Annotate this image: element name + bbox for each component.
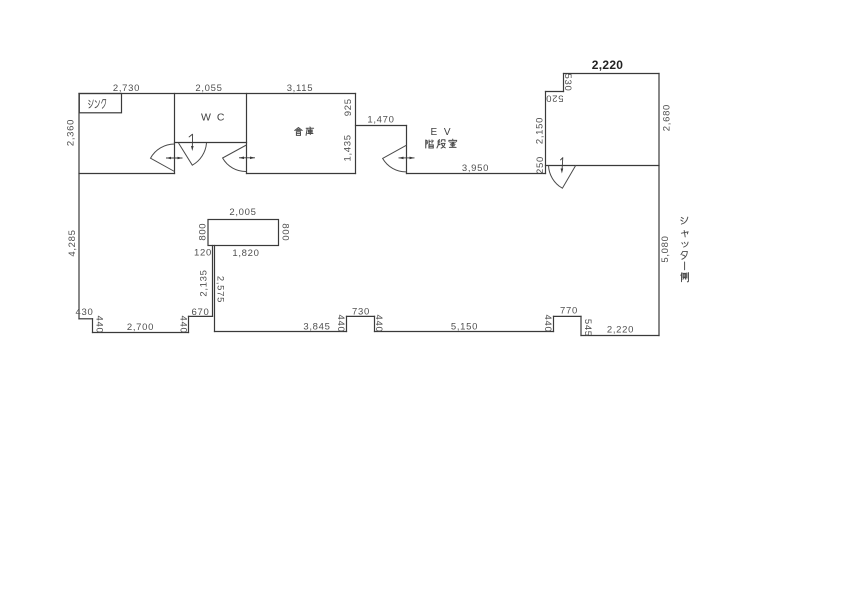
wall right-room west	[545, 92, 547, 174]
arrow D3	[239, 157, 255, 160]
svg-text:120: 120	[194, 248, 212, 259]
wall EV west	[406, 126, 408, 174]
door D5 right room (arc+leaf)	[549, 165, 576, 188]
wall pillar770 west	[553, 316, 555, 331]
svg-text:545: 545	[582, 319, 593, 337]
svg-text:800: 800	[280, 223, 291, 241]
door D2 WC (arc+leaf)	[179, 143, 207, 165]
wall bottom 3845	[215, 331, 347, 333]
svg-text:2,135: 2,135	[199, 269, 210, 296]
wall partition 120 east line	[214, 246, 216, 332]
label シャッター側 (hand-drawn, vertical)	[681, 217, 689, 282]
label 倉庫 (hand-drawn)	[295, 127, 314, 135]
svg-text:430: 430	[76, 307, 94, 318]
svg-text:1,435: 1,435	[342, 134, 353, 161]
wall pillar730 east	[374, 316, 376, 331]
wall partition 120 west line	[212, 246, 214, 317]
wall EV south 3950	[407, 173, 546, 175]
label シンク (hand-drawn)	[89, 100, 106, 109]
svg-text:250: 250	[535, 156, 546, 174]
wall right-room north	[564, 73, 660, 75]
wall room1 south	[79, 173, 175, 175]
wall step430 top	[79, 318, 93, 320]
wall ledge west drop	[188, 316, 190, 332]
arrow D1	[166, 157, 183, 160]
svg-text:530: 530	[562, 74, 573, 92]
wall east outer (shutter side)	[658, 74, 660, 336]
wall bottom 2220	[581, 335, 659, 337]
label 階段室 (hand-drawn)	[426, 139, 457, 148]
wall storage east	[355, 94, 357, 174]
svg-text:W C: W C	[201, 112, 226, 124]
svg-text:2,730: 2,730	[113, 83, 140, 94]
wall WC south	[175, 142, 247, 144]
svg-text:5,150: 5,150	[451, 322, 478, 333]
svg-text:3,950: 3,950	[462, 163, 489, 174]
wall step 545	[580, 316, 582, 335]
svg-text:2,220: 2,220	[607, 325, 634, 336]
wall left (west outer wall)	[78, 94, 80, 319]
wall bottom 5150	[375, 331, 554, 333]
svg-text:2,220: 2,220	[592, 58, 624, 72]
svg-text:440: 440	[178, 316, 189, 334]
wall 1470 passage north	[356, 125, 407, 127]
svg-text:4,285: 4,285	[67, 229, 78, 256]
wall divider room1/WC	[174, 94, 176, 174]
wall step 530	[563, 74, 565, 92]
arrow D5	[560, 157, 563, 173]
svg-text:1,820: 1,820	[232, 248, 259, 259]
svg-text:3,845: 3,845	[303, 322, 330, 333]
door D3 storage (arc+leaf)	[223, 145, 247, 172]
svg-text:2,055: 2,055	[195, 83, 222, 94]
svg-text:800: 800	[198, 223, 209, 241]
door D4 EV (arc+leaf)	[383, 145, 407, 172]
wall pillar730 top	[347, 315, 375, 317]
counter rect 2005x800	[208, 220, 279, 246]
svg-text:1,470: 1,470	[367, 115, 394, 126]
wall divider WC/storage	[246, 94, 248, 174]
svg-text:E V: E V	[430, 127, 452, 138]
wall storage south	[247, 173, 356, 175]
wall top (north wall of WC/storage block)	[79, 93, 356, 95]
svg-text:2,360: 2,360	[66, 119, 77, 146]
svg-text:2,700: 2,700	[127, 322, 154, 333]
svg-text:2,150: 2,150	[534, 117, 545, 144]
wall pillar730 west	[346, 316, 348, 331]
svg-text:670: 670	[192, 307, 210, 318]
arrow D2	[189, 134, 194, 151]
sink counter box シンク	[79, 94, 121, 113]
svg-text:440: 440	[373, 315, 384, 333]
wall pillar770 top	[554, 315, 582, 317]
wall ledge 670	[189, 315, 213, 317]
svg-text:2,575: 2,575	[215, 276, 226, 303]
svg-text:5,080: 5,080	[660, 235, 671, 262]
wall right-room south	[546, 165, 660, 167]
svg-text:440: 440	[542, 315, 553, 333]
svg-text:520: 520	[546, 93, 564, 104]
svg-text:925: 925	[343, 98, 354, 116]
svg-text:2,005: 2,005	[229, 207, 256, 218]
wall step430 drop	[92, 319, 94, 333]
svg-text:440: 440	[335, 315, 346, 333]
wall bottom 2700	[93, 332, 189, 334]
wall step 520	[546, 91, 564, 93]
svg-text:730: 730	[352, 307, 370, 318]
arrow D4	[399, 157, 415, 160]
door D1 room1 (arc+leaf)	[151, 144, 175, 172]
svg-text:3,115: 3,115	[287, 83, 314, 94]
svg-text:440: 440	[94, 316, 105, 334]
svg-text:2,680: 2,680	[662, 104, 673, 131]
svg-text:770: 770	[560, 306, 578, 317]
